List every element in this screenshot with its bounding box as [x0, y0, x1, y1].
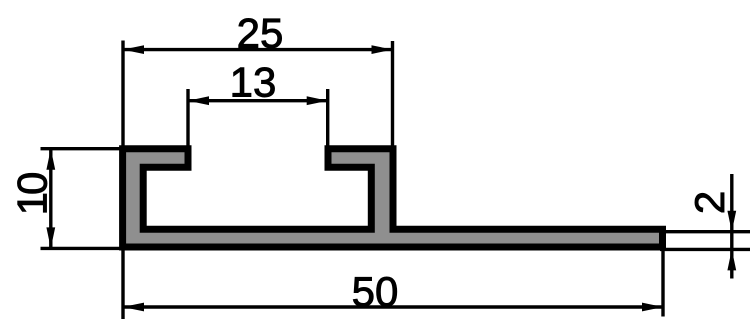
svg-text:2: 2 — [686, 191, 733, 214]
svg-text:10: 10 — [9, 173, 56, 215]
svg-text:25: 25 — [237, 10, 284, 57]
svg-text:50: 50 — [352, 268, 399, 315]
svg-text:13: 13 — [230, 59, 277, 106]
